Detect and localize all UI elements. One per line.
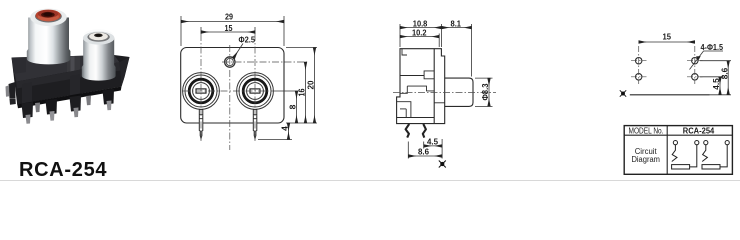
- svg-text:4.5: 4.5: [427, 137, 438, 147]
- svg-text:10.2: 10.2: [412, 28, 427, 38]
- svg-text:Φ8.3: Φ8.3: [480, 83, 490, 100]
- svg-text:MODEL No.: MODEL No.: [629, 126, 664, 135]
- svg-text:15: 15: [225, 23, 233, 33]
- svg-text:Diagram: Diagram: [631, 155, 660, 164]
- svg-text:4.5: 4.5: [711, 78, 721, 90]
- svg-text:20: 20: [306, 80, 316, 89]
- svg-text:4-Φ1.5: 4-Φ1.5: [701, 42, 724, 52]
- svg-text:29: 29: [225, 12, 233, 22]
- svg-text:15: 15: [663, 32, 672, 42]
- svg-text:RCA-254: RCA-254: [683, 126, 715, 135]
- svg-text:RCA-254: RCA-254: [19, 159, 107, 181]
- svg-text:Φ2.5: Φ2.5: [239, 35, 256, 45]
- svg-text:8.6: 8.6: [418, 147, 429, 157]
- svg-text:4: 4: [280, 126, 290, 131]
- svg-text:8.1: 8.1: [451, 18, 462, 28]
- svg-text:8.6: 8.6: [719, 67, 729, 79]
- svg-text:8: 8: [288, 104, 298, 109]
